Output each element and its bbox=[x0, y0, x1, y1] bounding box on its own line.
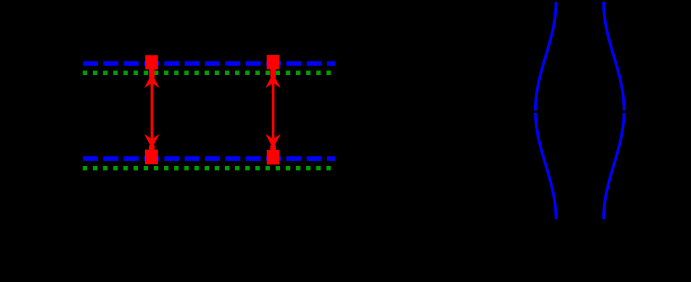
right figure: right blue profile curve (upper segment) bbox=[604, 2, 625, 111]
receptor R2 bottom-left (red rect with stem) bbox=[145, 145, 158, 164]
top membrane: blue dashed line bbox=[83, 61, 335, 66]
right figure: right blue profile curve (lower segment) bbox=[604, 113, 624, 219]
right figure: left blue profile curve (lower segment) bbox=[535, 113, 556, 219]
receptor R1 top-left (red rect with stem) bbox=[145, 55, 158, 77]
receptor R3 top-right (red rect with stem) bbox=[267, 55, 280, 78]
receptor R4 bottom-right (red rect with stem) bbox=[267, 145, 280, 164]
right figure: left blue profile curve (upper segment) bbox=[535, 2, 556, 111]
double-headed arrow A1 (left column) bbox=[144, 74, 159, 149]
bottom membrane: blue dashed line bbox=[83, 156, 335, 161]
top membrane: green dotted line bbox=[83, 71, 333, 75]
bottom membrane: green dotted line bbox=[83, 166, 333, 170]
double-headed arrow A2 (right column) bbox=[265, 74, 280, 149]
